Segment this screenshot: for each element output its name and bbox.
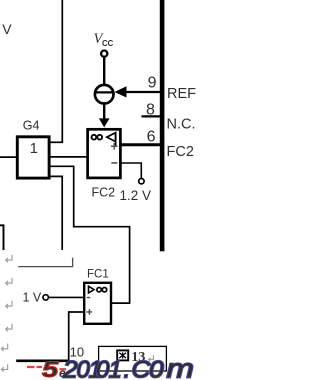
FC2 plus input mark <box>111 143 118 150</box>
figure caption box <box>99 346 167 371</box>
bracket cut-off at left edge <box>0 225 4 250</box>
FC1 plus input mark <box>87 309 93 315</box>
terminal 1.2V <box>139 179 144 184</box>
IC bus bar <box>160 0 165 251</box>
wire: 1V terminal to FC1 minus <box>49 296 84 298</box>
paragraph return mark 5 <box>1 344 7 352</box>
gate G4 box <box>17 137 49 178</box>
pin 9 REF wire <box>126 91 161 93</box>
wire: G4 bottom-right down <box>50 176 63 250</box>
caption return mark <box>149 355 154 361</box>
pin 8 stub <box>142 115 161 117</box>
svg-text:0: 0 <box>149 356 164 380</box>
terminal Vcc <box>101 51 107 57</box>
current source circle <box>95 85 114 104</box>
current source chord <box>95 91 113 93</box>
down arrowhead into FC2 <box>99 118 110 127</box>
wire: FC2 minus to 1.2V terminal <box>122 163 142 178</box>
svg-text:FC2: FC2 <box>92 186 116 200</box>
paragraph return mark 2 <box>6 278 12 286</box>
FC2 minus input mark <box>111 162 117 164</box>
svg-text:CC: CC <box>102 39 114 48</box>
character tu (figure) <box>117 350 128 360</box>
paragraph return mark 3 <box>6 301 12 309</box>
terminal 1V <box>43 295 48 300</box>
arrowhead pointing left into current source <box>115 86 127 97</box>
FC2 infinity symbol <box>92 135 102 140</box>
svg-text:FC1: FC1 <box>87 269 109 281</box>
svg-text:1: 1 <box>30 141 38 157</box>
svg-text:V: V <box>2 21 12 37</box>
gray hook wire <box>18 258 72 267</box>
paragraph return mark 6 <box>1 364 7 372</box>
wire: G4 upper-right stub <box>50 141 64 143</box>
svg-text:N.C.: N.C. <box>167 116 196 132</box>
watermark navy letters <box>62 354 194 380</box>
svg-text:.: . <box>124 356 131 380</box>
paragraph return mark 4 <box>6 324 12 332</box>
wire: FC1 plus input down to pin 10 rail <box>69 312 84 360</box>
wire: G4 left input <box>0 156 17 158</box>
paragraph return mark 1 <box>6 255 12 262</box>
svg-text:1 V: 1 V <box>23 291 42 305</box>
svg-text:9: 9 <box>148 75 157 92</box>
svg-text:m: m <box>167 354 194 380</box>
svg-text:REF: REF <box>167 86 196 102</box>
wire: Vcc terminal to current source <box>103 57 105 86</box>
svg-text:1.2 V: 1.2 V <box>120 188 152 203</box>
FC2 comparator flag <box>107 133 116 142</box>
svg-text:6: 6 <box>147 129 156 146</box>
svg-text:G4: G4 <box>23 119 40 133</box>
watermark red strike dashes <box>27 367 66 369</box>
svg-text:FC2: FC2 <box>167 144 194 160</box>
wire: vertical from top edge down to G4 upper stub <box>61 0 63 142</box>
wire: G4 to FC1 output (feedback path) <box>50 166 130 303</box>
svg-text:5: 5 <box>42 358 59 380</box>
wire: G4 to FC2 <box>50 156 88 158</box>
wire: current source to FC2 top <box>103 104 105 120</box>
op-amp FC1 box <box>84 283 111 324</box>
FC1 infinity symbol <box>97 288 107 292</box>
wire: pin 10 horizontal thick <box>16 359 69 362</box>
pin 6 wire <box>120 143 160 146</box>
FC1 minus input mark <box>87 297 90 299</box>
svg-text:1: 1 <box>109 356 122 380</box>
FC1 triangle symbol <box>89 286 95 293</box>
svg-text:8: 8 <box>146 101 155 118</box>
svg-text:2: 2 <box>62 356 78 380</box>
comparator FC2 box <box>88 129 121 178</box>
